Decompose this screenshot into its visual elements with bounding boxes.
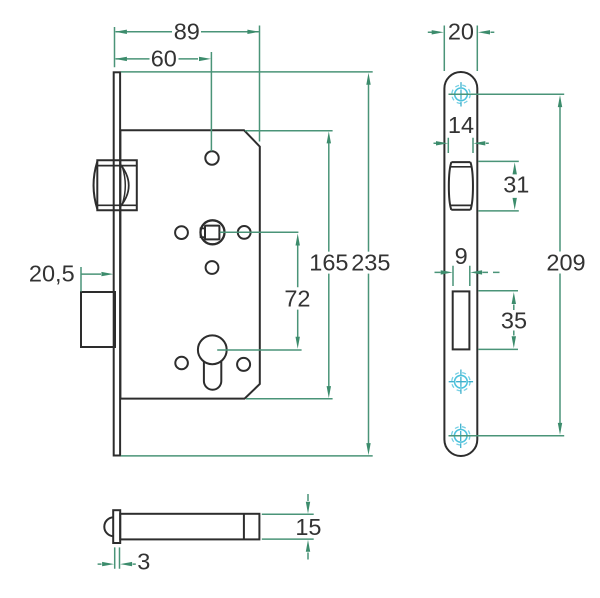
faceplate front view bbox=[444, 72, 477, 456]
lock case outline bbox=[120, 130, 259, 398]
latch bolt front view bbox=[449, 162, 473, 210]
dim 235 bbox=[121, 72, 391, 456]
dim 165 bbox=[245, 131, 349, 399]
svg-text:89: 89 bbox=[174, 19, 200, 45]
top hole bbox=[205, 151, 218, 164]
svg-text:35: 35 bbox=[501, 307, 527, 333]
dim 9 bbox=[435, 243, 500, 286]
screw symbol top bbox=[449, 82, 473, 106]
svg-text:20,5: 20,5 bbox=[29, 261, 75, 287]
bottom view plate bbox=[104, 510, 120, 543]
spindle follower bbox=[201, 220, 225, 244]
faceplate side view bbox=[114, 72, 120, 455]
svg-text:14: 14 bbox=[448, 112, 474, 138]
svg-text:235: 235 bbox=[351, 250, 390, 276]
svg-text:15: 15 bbox=[295, 514, 321, 540]
svg-text:20: 20 bbox=[448, 19, 474, 45]
screw symbol middle bbox=[449, 370, 473, 394]
svg-text:72: 72 bbox=[284, 286, 310, 312]
euro cylinder hole bbox=[198, 335, 227, 389]
hole right of spindle bbox=[238, 226, 251, 239]
deadbolt cutout front view bbox=[453, 291, 470, 349]
dim 15 bbox=[262, 494, 322, 560]
hole below spindle bbox=[206, 261, 219, 274]
screw symbol bottom bbox=[449, 424, 473, 448]
dim 20 bbox=[428, 19, 495, 72]
dim 31 bbox=[478, 161, 529, 211]
dim 72 bbox=[217, 232, 310, 350]
svg-text:3: 3 bbox=[137, 549, 150, 575]
deadbolt side view bbox=[81, 292, 115, 347]
hole left of cylinder bbox=[175, 357, 188, 370]
hole right of cylinder bbox=[237, 358, 250, 371]
dim 60 bbox=[115, 46, 211, 152]
dim 89 bbox=[115, 19, 260, 142]
dim 20,5 bbox=[29, 261, 113, 292]
dim 35 bbox=[478, 291, 527, 350]
svg-text:31: 31 bbox=[503, 171, 529, 197]
dim 3 bbox=[98, 547, 151, 574]
latch bolt side view bbox=[94, 160, 137, 210]
svg-text:60: 60 bbox=[151, 46, 177, 72]
bottom view case bbox=[120, 514, 259, 540]
dim 14 bbox=[434, 112, 489, 153]
svg-text:9: 9 bbox=[455, 243, 468, 269]
svg-text:165: 165 bbox=[309, 250, 348, 276]
hole left of spindle bbox=[175, 226, 188, 239]
svg-text:209: 209 bbox=[546, 249, 585, 275]
dim 209 bbox=[449, 94, 586, 436]
